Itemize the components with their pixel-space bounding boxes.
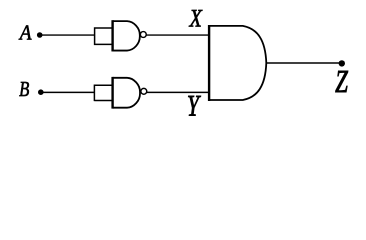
output label Z xyxy=(335,65,348,101)
wire B to U2 xyxy=(41,91,95,93)
NAND gate U2 back edge xyxy=(111,77,113,109)
wire node Y : U2 output to U3 input xyxy=(147,91,210,93)
input label A xyxy=(18,22,32,45)
node X label xyxy=(189,5,203,32)
NAND U1 output bubble xyxy=(140,32,146,38)
wire node X : U1 output to U3 input xyxy=(146,34,209,36)
NAND U2 output bubble xyxy=(141,88,147,94)
NAND gate U2 body xyxy=(113,78,140,108)
svg-text:Z: Z xyxy=(335,65,348,101)
svg-text:X: X xyxy=(189,5,203,32)
svg-text:B: B xyxy=(19,78,30,101)
wire A to U1 xyxy=(40,34,95,36)
node A terminal dot xyxy=(37,32,43,38)
node B terminal dot xyxy=(38,89,44,95)
AND gate U3 body xyxy=(209,26,266,100)
node Y label xyxy=(187,89,201,122)
NAND U2 input tie rectangle xyxy=(94,85,112,102)
input label B xyxy=(19,78,30,101)
NAND U1 input tie rectangle xyxy=(95,27,113,45)
AND gate U3 back edge xyxy=(208,25,210,101)
wire U3 output to Z xyxy=(266,62,342,64)
NAND gate U1 body xyxy=(113,21,140,50)
node Z terminal dot xyxy=(339,60,345,66)
NAND gate U1 back edge xyxy=(111,20,113,51)
svg-text:A: A xyxy=(18,22,32,45)
